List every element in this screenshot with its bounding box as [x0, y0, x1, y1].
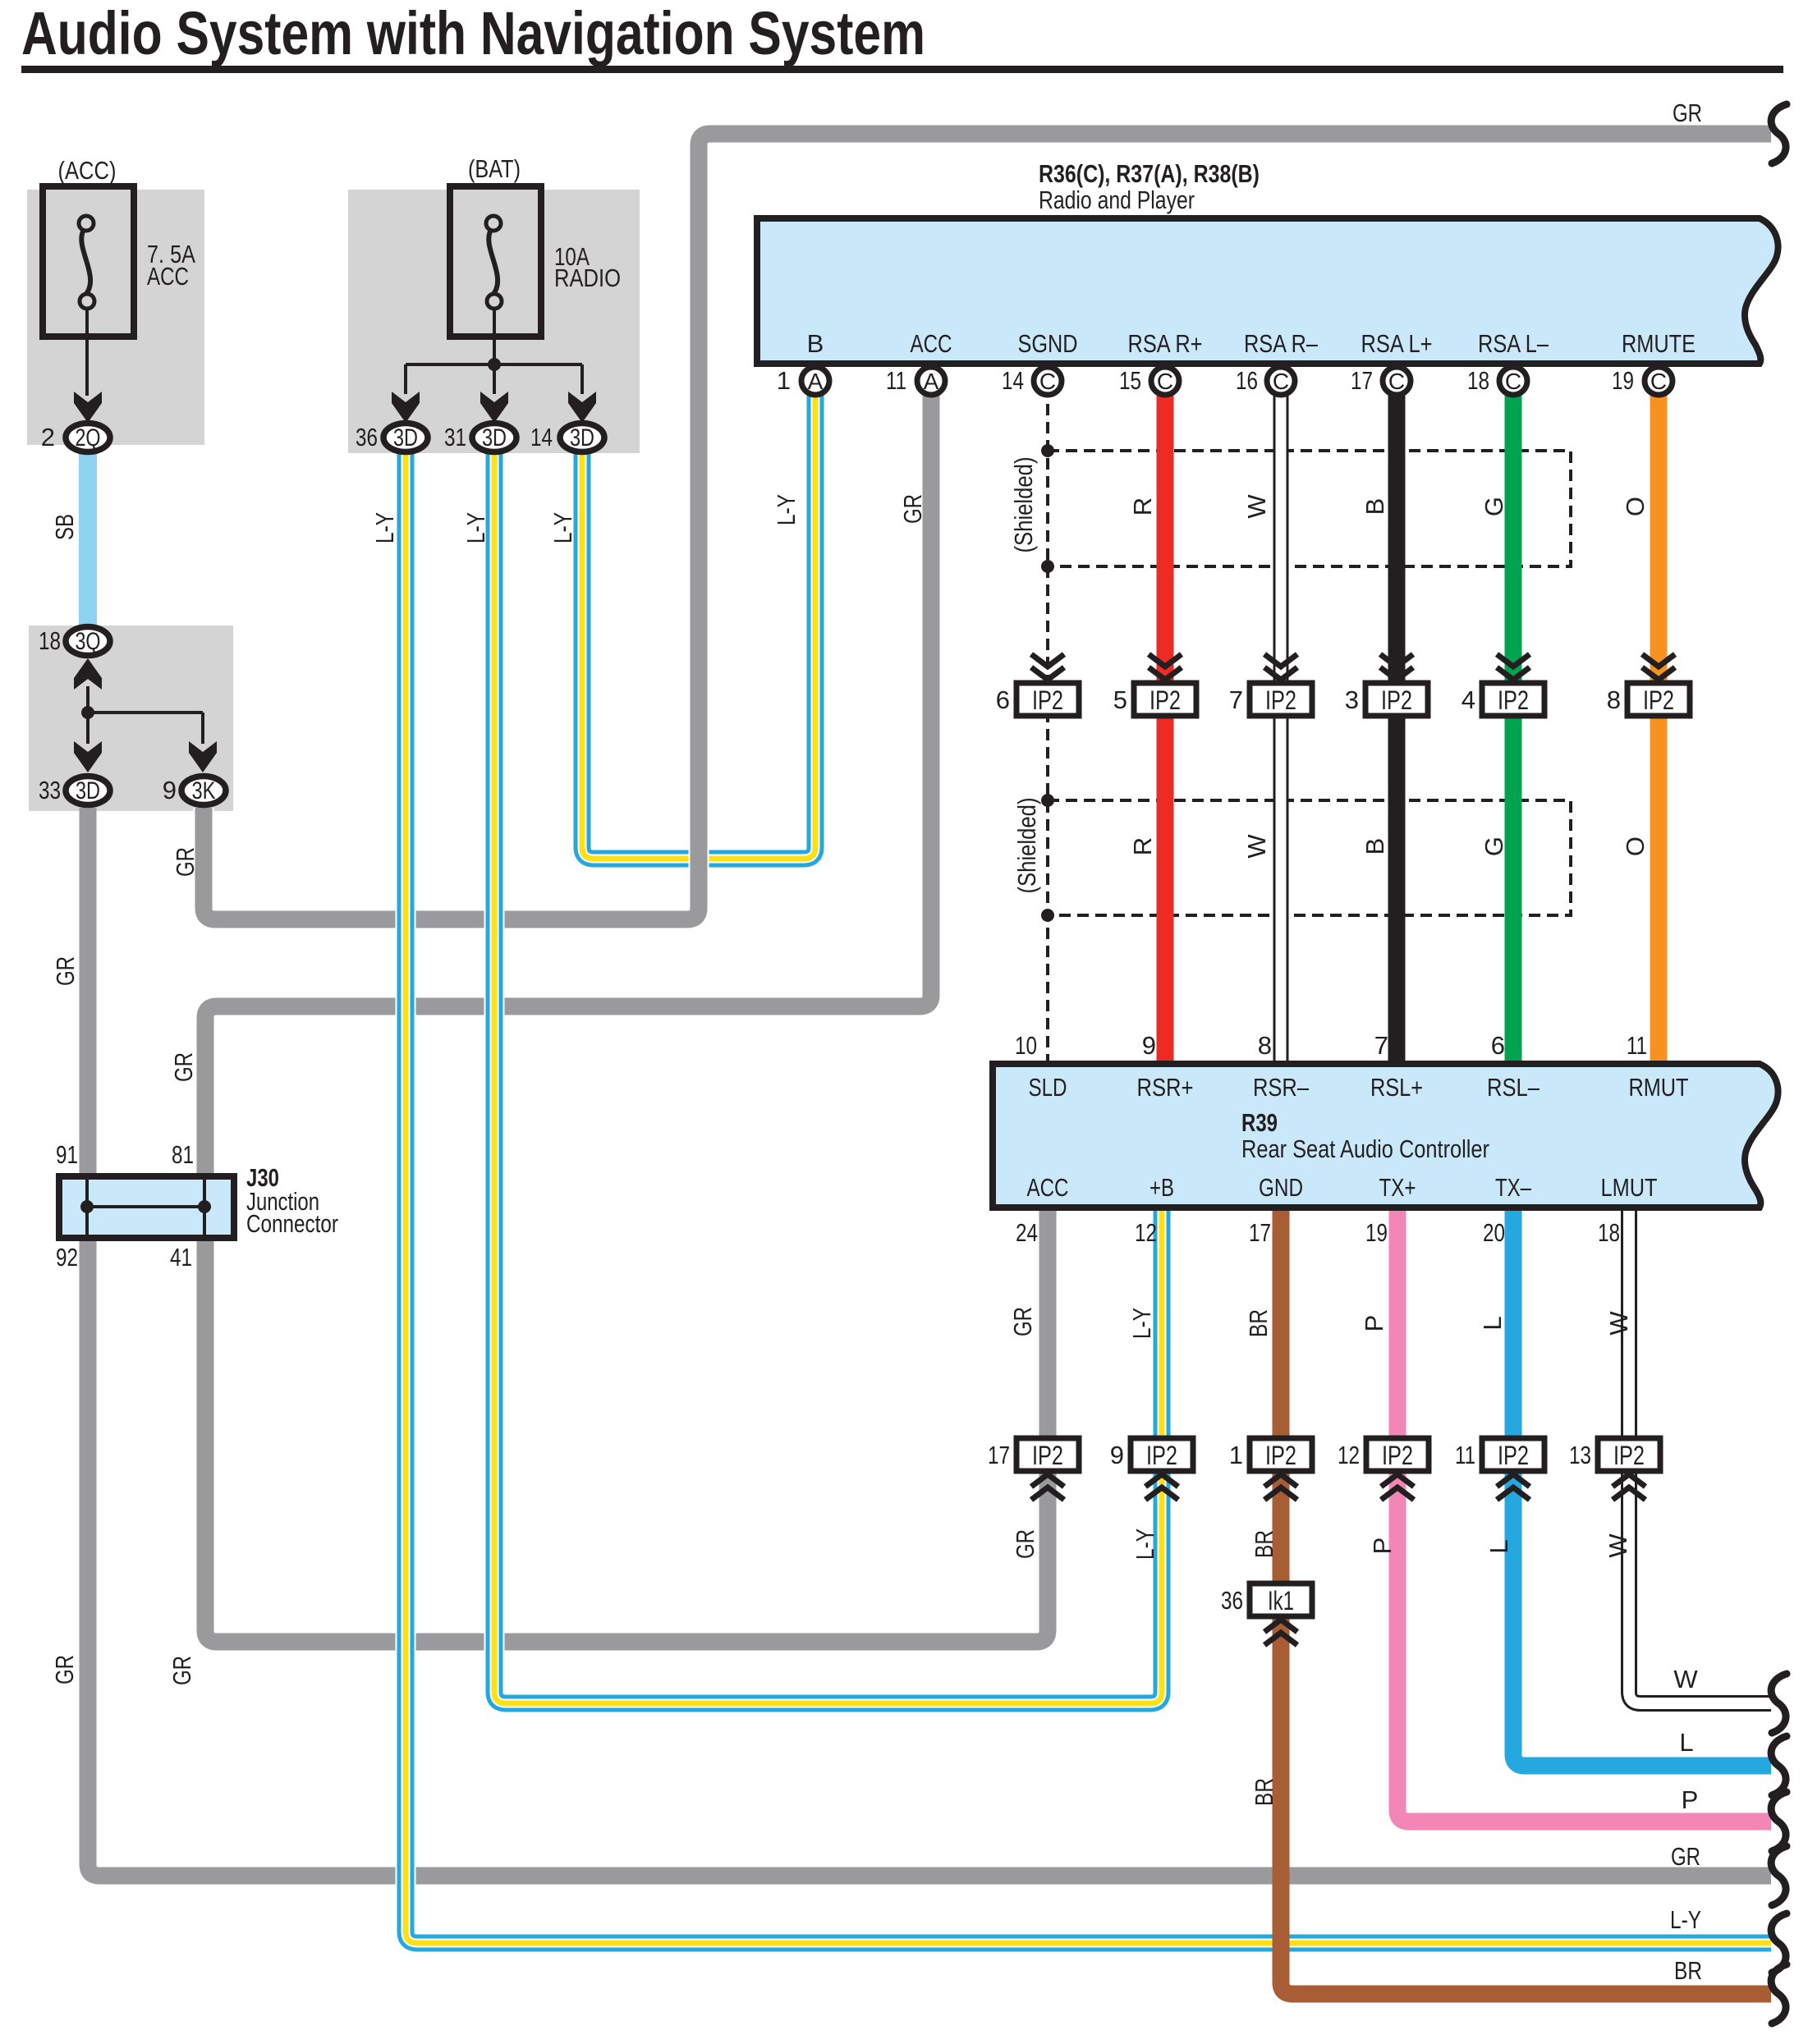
svg-text:9: 9	[1110, 1441, 1124, 1469]
svg-text:B: B	[1361, 498, 1389, 516]
connector oval 3D at (709,533)	[560, 424, 604, 452]
svg-text:L: L	[1679, 1728, 1693, 1757]
wire GR from 3K via riser to top-right edge	[204, 134, 1771, 919]
svg-text:L-Y: L-Y	[772, 494, 801, 525]
svg-text:B: B	[807, 329, 824, 358]
svg-text:19: 19	[1365, 1218, 1388, 1247]
svg-text:IP2: IP2	[1032, 685, 1063, 715]
svg-text:GR: GR	[51, 956, 80, 986]
3Q splice branch	[74, 658, 217, 772]
ECU box R36/R37/R38 Radio and Player	[757, 218, 1778, 364]
connector IP2 upper (pin 5)	[1113, 654, 1196, 716]
svg-text:BR: BR	[1674, 1956, 1702, 1985]
svg-text:1: 1	[1229, 1441, 1243, 1469]
wire GR from 33(3D) via J30 91/92 to bottom-right edge	[88, 808, 1771, 1876]
wire break mark (P)	[1771, 1792, 1787, 1851]
wire L R39 TX- pin20 to IP2 11 to right edge	[1513, 1208, 1771, 1766]
svg-text:IP2: IP2	[1381, 685, 1412, 715]
wire break mark (L)	[1771, 1736, 1787, 1795]
radio pin circle A at x=1134	[917, 367, 945, 395]
connector oval 3D at (602,533)	[472, 424, 516, 452]
svg-text:A: A	[808, 369, 824, 394]
svg-text:GR: GR	[1673, 99, 1702, 127]
connector oval 3Q at (107,781)	[66, 627, 110, 656]
svg-text:L-Y: L-Y	[461, 512, 490, 543]
svg-text:(BAT): (BAT)	[468, 154, 521, 183]
junction connector J30	[59, 1176, 234, 1238]
svg-text:IP2: IP2	[1498, 1441, 1529, 1470]
svg-text:GND: GND	[1259, 1173, 1303, 1202]
radio pin circle C at x=1560	[1267, 367, 1295, 395]
svg-text:C: C	[1388, 369, 1405, 394]
svg-text:3Q: 3Q	[76, 628, 101, 655]
svg-text:ACC: ACC	[911, 329, 952, 358]
svg-text:L-Y: L-Y	[370, 512, 399, 543]
svg-text:RMUT: RMUT	[1629, 1073, 1689, 1102]
ECU box R39 Rear Seat Audio Controller	[993, 1064, 1778, 1208]
radio pin circle C at x=1276	[1034, 367, 1062, 395]
svg-text:GR: GR	[171, 847, 200, 877]
svg-text:R39: R39	[1241, 1108, 1278, 1137]
connector block shade (3Q/3D/3K)	[29, 626, 233, 811]
svg-text:RSL–: RSL–	[1487, 1073, 1540, 1102]
svg-text:3D: 3D	[570, 424, 594, 451]
svg-text:14: 14	[530, 423, 553, 451]
connector IP2 upper (pin 7)	[1229, 654, 1312, 716]
svg-text:O: O	[1621, 497, 1650, 516]
svg-text:L-Y: L-Y	[548, 512, 577, 543]
wire BR R39 GND pin17 via Ik1 to bottom-right edge	[1281, 1208, 1771, 1994]
connector IP2 upper (pin 4)	[1462, 654, 1544, 716]
radio pin circle C at x=1843	[1499, 367, 1527, 395]
svg-text:IP2: IP2	[1032, 1441, 1063, 1470]
wire W RSA R- pin16 to R39 RSR- pin 8 (hollow)	[1273, 386, 1289, 1062]
svg-text:3D: 3D	[393, 424, 418, 451]
svg-text:1: 1	[777, 366, 791, 395]
wire L-Y from 14(3D) to radio pin 1 B	[582, 386, 815, 859]
connector IP2 upper (pin 3)	[1345, 654, 1428, 716]
svg-text:3K: 3K	[192, 777, 216, 804]
svg-text:18: 18	[1598, 1218, 1620, 1247]
svg-text:7: 7	[1229, 685, 1243, 714]
shielded cable box 1	[1048, 451, 1571, 566]
svg-text:3D: 3D	[482, 424, 507, 451]
svg-text:W: W	[1604, 1311, 1633, 1336]
svg-text:RMUTE: RMUTE	[1622, 329, 1696, 358]
svg-text:36: 36	[1221, 1586, 1243, 1615]
svg-text:17: 17	[988, 1441, 1010, 1469]
svg-text:SLD: SLD	[1029, 1073, 1067, 1102]
svg-text:RSR–: RSR–	[1253, 1073, 1310, 1102]
svg-text:5: 5	[1113, 685, 1127, 714]
svg-text:14: 14	[1002, 366, 1024, 395]
svg-text:RSR+: RSR+	[1137, 1073, 1194, 1102]
svg-text:TX–: TX–	[1495, 1173, 1532, 1202]
svg-text:3D: 3D	[76, 777, 100, 804]
svg-text:12: 12	[1338, 1441, 1360, 1469]
svg-text:RSA R–: RSA R–	[1244, 329, 1319, 358]
fuse 7.5A ACC	[43, 186, 134, 423]
wire B RSA L+ pin17 to R39 RSL+ pin 7	[1388, 386, 1406, 1062]
svg-text:W: W	[1242, 834, 1271, 859]
svg-text:GR: GR	[50, 1655, 79, 1684]
svg-text:RSA R+: RSA R+	[1128, 329, 1203, 358]
svg-text:O: O	[1621, 836, 1650, 856]
wire R RSA R+ pin15 to R39 RSR+ pin 9	[1157, 386, 1174, 1062]
connector IP2 upper (pin 6)	[996, 654, 1079, 716]
svg-text:(ACC): (ACC)	[58, 156, 117, 185]
svg-text:9: 9	[1142, 1031, 1156, 1060]
svg-text:L-Y: L-Y	[1131, 1528, 1159, 1560]
svg-text:9: 9	[163, 776, 177, 804]
svg-text:GR: GR	[169, 1052, 198, 1082]
wire GR R39 ACC pin 24 to IP2 17	[1039, 1208, 1057, 1445]
svg-text:(Shielded): (Shielded)	[1012, 798, 1041, 894]
svg-text:IP2: IP2	[1265, 1441, 1296, 1470]
svg-text:17: 17	[1249, 1218, 1271, 1247]
svg-text:16: 16	[1236, 366, 1258, 395]
svg-text:GR: GR	[167, 1656, 196, 1685]
svg-text:Rear Seat Audio Controller: Rear Seat Audio Controller	[1241, 1134, 1489, 1163]
svg-text:IP2: IP2	[1146, 1441, 1177, 1470]
svg-text:W: W	[1242, 494, 1271, 519]
svg-text:11: 11	[886, 366, 906, 395]
wire break mark (BR)	[1771, 1964, 1787, 2023]
svg-text:RSA L–: RSA L–	[1478, 329, 1549, 358]
svg-text:P: P	[1360, 1315, 1388, 1332]
svg-text:Radio and Player: Radio and Player	[1039, 186, 1195, 214]
connector IP2 lower (pin 1)	[1229, 1438, 1312, 1500]
svg-text:IP2: IP2	[1613, 1441, 1645, 1470]
svg-text:BR: BR	[1250, 1778, 1278, 1806]
wire break mark (L-Y)	[1771, 1913, 1787, 1973]
svg-text:IP2: IP2	[1382, 1441, 1413, 1470]
svg-text:3: 3	[1345, 685, 1359, 714]
junction node on shield drain y=549	[1041, 444, 1054, 457]
wire O RMUTE pin19 to R39 RMUT pin 11	[1650, 386, 1668, 1062]
svg-text:IP2: IP2	[1265, 685, 1296, 715]
radio pin circle C at x=1419	[1151, 367, 1179, 395]
svg-text:17: 17	[1351, 366, 1373, 395]
radio pin circle C at x=2020	[1645, 367, 1673, 395]
svg-text:92: 92	[56, 1243, 78, 1272]
svg-text:6: 6	[1491, 1031, 1505, 1060]
svg-text:10: 10	[1015, 1031, 1037, 1060]
svg-text:11: 11	[1455, 1441, 1475, 1469]
connector oval 3K at (248,963)	[181, 777, 226, 805]
svg-text:GR: GR	[898, 494, 927, 524]
wire break mark (top GR)	[1771, 104, 1787, 163]
svg-text:GR: GR	[1008, 1307, 1037, 1336]
connector IP2 lower (pin 13)	[1569, 1438, 1660, 1500]
svg-text:13: 13	[1569, 1441, 1591, 1469]
svg-text:8: 8	[1258, 1031, 1272, 1060]
svg-text:SB: SB	[50, 514, 79, 540]
svg-text:ACC: ACC	[147, 262, 189, 291]
wire break mark (GR)	[1771, 1846, 1787, 1905]
svg-text:36: 36	[356, 423, 378, 451]
radio pin circle A at x=993	[801, 367, 829, 395]
connector oval 3D at (494,533)	[383, 424, 428, 452]
svg-text:(Shielded): (Shielded)	[1009, 457, 1038, 553]
svg-text:4: 4	[1462, 685, 1475, 714]
svg-text:B: B	[1361, 838, 1389, 855]
svg-text:G: G	[1480, 836, 1508, 856]
svg-text:IP2: IP2	[1643, 685, 1674, 715]
fuse block shade (BAT)	[348, 190, 640, 453]
wire P R39 TX+ pin19 to IP2 12 to right edge	[1397, 1208, 1771, 1822]
wire G RSA L- pin18 to R39 RSL- pin 6	[1505, 386, 1522, 1062]
svg-text:W: W	[1604, 1533, 1632, 1558]
svg-text:C: C	[1273, 369, 1289, 394]
svg-text:LMUT: LMUT	[1601, 1173, 1658, 1202]
svg-text:81: 81	[172, 1140, 194, 1169]
svg-text:6: 6	[996, 685, 1010, 714]
junction node on shield drain y=975	[1041, 794, 1054, 807]
svg-text:18: 18	[39, 626, 61, 655]
connector IP2 lower (pin 17)	[988, 1438, 1079, 1500]
connector IP2 lower (pin 12)	[1338, 1438, 1429, 1500]
svg-text:SGND: SGND	[1018, 329, 1078, 358]
svg-text:2Q: 2Q	[76, 424, 101, 451]
svg-text:GR: GR	[1671, 1842, 1700, 1871]
svg-text:TX+: TX+	[1379, 1173, 1416, 1202]
wire L-Y from 36(3D) to bottom-right edge	[406, 450, 1771, 1943]
svg-text:18: 18	[1467, 366, 1489, 395]
svg-text:R: R	[1128, 837, 1157, 855]
svg-text:P: P	[1682, 1785, 1699, 1814]
svg-text:RSA L+: RSA L+	[1361, 329, 1433, 358]
wire break mark (W)	[1771, 1674, 1787, 1733]
connector IP2 lower (pin 9)	[1110, 1438, 1193, 1500]
svg-text:15: 15	[1119, 366, 1141, 395]
svg-text:Ik1: Ik1	[1268, 1586, 1294, 1615]
svg-text:C: C	[1505, 369, 1521, 394]
fuse 10A RADIO	[392, 186, 596, 423]
svg-text:W: W	[1673, 1665, 1698, 1693]
svg-text:G: G	[1480, 497, 1508, 516]
connector Ik1 (pin 36)	[1221, 1583, 1312, 1645]
svg-text:IP2: IP2	[1498, 685, 1529, 715]
junction node on shield drain y=1115	[1041, 909, 1054, 922]
svg-text:L: L	[1484, 1539, 1513, 1553]
wire GR radio pin11 ACC to J30 pin 81/41 to IP2 17	[205, 386, 1048, 1642]
radio pin circle C at x=1701	[1383, 367, 1411, 395]
svg-text:8: 8	[1607, 685, 1621, 714]
svg-text:24: 24	[1016, 1218, 1038, 1247]
svg-text:Connector: Connector	[246, 1209, 338, 1238]
shield drain dashed line pin14 SGND to R39 SLD pin 10	[1046, 386, 1049, 1062]
svg-text:L-Y: L-Y	[1670, 1905, 1701, 1934]
svg-text:31: 31	[444, 423, 466, 451]
svg-text:L: L	[1478, 1316, 1507, 1330]
svg-text:BR: BR	[1244, 1309, 1273, 1337]
connector IP2 lower (pin 11)	[1455, 1438, 1544, 1500]
svg-text:11: 11	[1627, 1031, 1647, 1060]
connector oval 3D at (107,963)	[66, 777, 110, 805]
svg-text:RADIO: RADIO	[554, 264, 621, 292]
svg-text:33: 33	[39, 776, 61, 804]
fuse block shade (ACC)	[27, 190, 204, 445]
svg-text:12: 12	[1135, 1218, 1157, 1247]
svg-text:P: P	[1368, 1538, 1397, 1555]
svg-text:20: 20	[1483, 1218, 1505, 1247]
svg-text:L-Y: L-Y	[1127, 1308, 1156, 1339]
svg-text:C: C	[1650, 369, 1667, 394]
connector oval 2Q at (107,533)	[66, 424, 110, 452]
svg-text:BR: BR	[1250, 1530, 1278, 1558]
svg-text:R: R	[1128, 497, 1157, 516]
svg-text:+B: +B	[1150, 1173, 1174, 1202]
svg-text:C: C	[1039, 369, 1056, 394]
svg-text:2: 2	[41, 423, 55, 451]
svg-text:Audio System with Navigation S: Audio System with Navigation System	[21, 0, 925, 67]
svg-text:RSL+: RSL+	[1370, 1073, 1423, 1102]
svg-text:7: 7	[1374, 1031, 1388, 1060]
svg-text:C: C	[1157, 369, 1173, 394]
junction node on shield drain y=690	[1041, 560, 1054, 573]
svg-text:19: 19	[1612, 366, 1634, 395]
shielded cable box 2	[1048, 800, 1571, 915]
svg-text:ACC: ACC	[1027, 1173, 1069, 1202]
svg-text:41: 41	[170, 1243, 192, 1272]
svg-text:R36(C), R37(A), R38(B): R36(C), R37(A), R38(B)	[1039, 159, 1260, 188]
wire W R39 LMUT pin18 to IP2 13 to right edge (hollow)	[1629, 1208, 1771, 1703]
svg-text:IP2: IP2	[1150, 685, 1181, 715]
wire L-Y from 31(3D) to IP2 9 / R39 +B pin 12	[494, 450, 1162, 1703]
svg-text:91: 91	[56, 1140, 78, 1169]
svg-text:A: A	[924, 369, 939, 394]
wire SB fuse ACC to 18(3Q)	[79, 450, 97, 629]
svg-text:GR: GR	[1011, 1529, 1039, 1559]
connector IP2 upper (pin 8)	[1607, 654, 1690, 716]
